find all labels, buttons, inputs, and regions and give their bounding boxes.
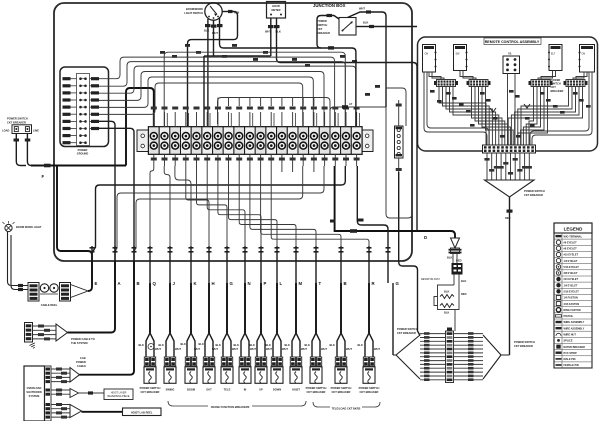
- wire remote D: [511, 87, 579, 146]
- remote switch unit 1: [423, 45, 436, 73]
- wire connector row 2 to terminal strip: [99, 62, 345, 127]
- wire remote drop: [514, 153, 516, 180]
- wire boom switch aux down: [203, 56, 205, 127]
- svg-text:R: R: [372, 281, 376, 286]
- wires above terminal strip: [99, 44, 420, 336]
- node A exit: [113, 247, 118, 249]
- remote control assembly title box: [484, 38, 541, 45]
- wire stub down: [281, 166, 283, 172]
- svg-text:W/O TERMINAL: W/O TERMINAL: [564, 235, 583, 238]
- interlock resistor assembly: [421, 238, 467, 331]
- breaker unit 1: [149, 283, 151, 333]
- wire comb drop: [228, 98, 230, 107]
- bowtie row 6: [420, 352, 446, 354]
- wire remote B: [479, 87, 508, 146]
- svg-text:WHT: WHT: [155, 347, 161, 351]
- wire J5 bottom: [398, 158, 400, 172]
- svg-text:BLK: BLK: [234, 343, 239, 347]
- bowtie row 9: [420, 363, 446, 365]
- wire to reversing piece: [79, 392, 105, 394]
- wire stub terminal 6 top: [206, 112, 208, 127]
- svg-text:CKT BREAKER: CKT BREAKER: [332, 390, 351, 394]
- breaker unit 4: [208, 283, 210, 333]
- power switch ckt breaker CB1 (left): [2, 88, 154, 261]
- boom/work light switch S1: [184, 3, 317, 127]
- svg-text:WHT: WHT: [194, 347, 200, 351]
- junction merge left: [490, 108, 496, 112]
- wire remote A: [443, 87, 490, 146]
- wire remote B: [486, 87, 514, 146]
- power cable pin header: [25, 323, 33, 343]
- wire stub terminal 1 top: [153, 112, 155, 127]
- svg-text:1/4 EYELET: 1/4 EYELET: [564, 284, 578, 287]
- terminal strip body: [149, 127, 363, 154]
- wire staircase 2: [197, 166, 228, 246]
- legend row 21: [554, 361, 592, 363]
- S1 body circle: [205, 3, 222, 20]
- connector J5: [395, 126, 404, 158]
- remote funnel: [485, 180, 535, 197]
- svg-text:CABLE: CABLE: [77, 364, 86, 368]
- node H exit: [207, 247, 212, 249]
- svg-text:D: D: [424, 235, 427, 240]
- remote bottom connector strip: [483, 145, 536, 153]
- svg-text:3/16 FASTON: 3/16 FASTON: [564, 303, 580, 306]
- wire stub terminal 2 bottom: [164, 154, 166, 166]
- unit 1 indicator: [148, 344, 154, 350]
- svg-text:BLK: BLK: [330, 343, 335, 347]
- wire stub terminal 15 bottom: [302, 154, 304, 166]
- bowtie row 8: [420, 360, 446, 362]
- power cable funnel: [56, 324, 68, 341]
- svg-text:WHT: WHT: [232, 347, 238, 351]
- terminal 2: [159, 127, 170, 154]
- svg-text:BLK: BLK: [250, 343, 255, 347]
- svg-text:SW: SW: [456, 53, 461, 56]
- svg-text:WHT: WHT: [374, 347, 380, 351]
- svg-text:BLK: BLK: [181, 342, 186, 346]
- wire comb drop: [238, 98, 240, 107]
- wire comb bus: [218, 98, 331, 127]
- wire lamp down: [8, 232, 29, 290]
- wire CB1 line down: [27, 134, 36, 166]
- svg-text:BLK: BLK: [276, 30, 281, 34]
- wire node G to bowtie: [392, 283, 394, 355]
- wire labels mesh: [160, 51, 165, 54]
- power switch ckt breaker CB2 (junction box): [317, 7, 417, 108]
- svg-text:IN: IN: [244, 388, 247, 392]
- wire node A to power cable funnel: [68, 261, 116, 333]
- wire interlock: [453, 254, 457, 264]
- svg-text:POWER: POWER: [78, 148, 88, 152]
- svg-text:B: B: [344, 281, 347, 286]
- legend row 20: [554, 355, 592, 357]
- resistor R2: [440, 304, 454, 308]
- interlock relay block: [452, 263, 463, 275]
- terminal 15: [298, 127, 309, 154]
- svg-text:BLK: BLK: [363, 21, 368, 25]
- ground symbol: [29, 343, 36, 349]
- wire stub terminal 7 bottom: [217, 154, 219, 166]
- svg-text:A: A: [118, 281, 121, 286]
- remote control internals: [423, 45, 595, 356]
- svg-text:WIRE NUT: WIRE NUT: [564, 334, 577, 337]
- svg-text:OVERLOAD: OVERLOAD: [27, 386, 42, 390]
- cable reel right connector: [60, 283, 71, 302]
- breaker unit 6: [244, 283, 246, 333]
- svg-text:H: H: [212, 281, 215, 286]
- svg-text:LOAD: LOAD: [2, 129, 9, 133]
- wire remote drop: [519, 153, 521, 180]
- svg-text:OUT: OUT: [206, 388, 212, 392]
- wire remote drop: [491, 153, 493, 180]
- svg-text:WHT: WHT: [175, 347, 181, 351]
- wire stub terminal 19 bottom: [345, 154, 347, 166]
- pin row 3: [71, 92, 77, 94]
- wire stub terminal 18 bottom: [334, 154, 336, 166]
- cable reel left connector: [28, 283, 39, 302]
- svg-text:SYSTEM: SYSTEM: [29, 394, 40, 398]
- wire connector row 8 to node B: [99, 128, 134, 261]
- terminal 10: [245, 127, 256, 154]
- svg-text:POWER SWITCH: POWER SWITCH: [514, 340, 535, 344]
- bowtie power switch breaker assembly: [393, 283, 535, 383]
- M1 body: [267, 2, 286, 19]
- wire S1 terminal 3 down then right: [220, 18, 318, 48]
- wire stub terminal 20 bottom: [356, 154, 358, 166]
- svg-text:RB: RB: [508, 53, 512, 56]
- svg-text:K: K: [194, 281, 198, 286]
- wire remote A: [453, 87, 499, 146]
- svg-text:BLK: BLK: [444, 290, 449, 294]
- svg-text:WHT: WHT: [359, 7, 365, 11]
- svg-text:REVERSING PIECE: REVERSING PIECE: [108, 395, 130, 398]
- svg-text:POWER SWITCH: POWER SWITCH: [331, 386, 352, 390]
- wire remote A: [446, 87, 492, 146]
- node E exit: [90, 247, 95, 249]
- wire run up to terminal strip: [126, 88, 154, 166]
- svg-text:CKT BREAKER: CKT BREAKER: [7, 120, 26, 124]
- svg-text:RESISTOR ASSY: RESISTOR ASSY: [421, 278, 440, 281]
- svg-text:RING FASTON: RING FASTON: [564, 309, 581, 312]
- wire remote C: [526, 87, 537, 146]
- svg-text:WHT: WHT: [265, 30, 271, 34]
- wire stub terminal 13 bottom: [281, 154, 283, 166]
- legend row 16: [554, 330, 592, 332]
- svg-text:JUNCTION BOX: JUNCTION BOX: [313, 3, 346, 8]
- wire run down to node E: [57, 166, 92, 262]
- breaker unit 2: [169, 283, 171, 333]
- svg-text:BLK: BLK: [444, 311, 449, 315]
- interlock connector: [451, 248, 460, 254]
- wire stub terminal 16 top: [313, 112, 315, 127]
- wire staircase 10: [175, 166, 191, 246]
- bowtie left funnel: [393, 335, 420, 379]
- junction merge right: [524, 104, 530, 108]
- wire stub terminal 4 bottom: [185, 154, 187, 166]
- remote control assembly enclosure: [418, 37, 598, 151]
- wires below terminal strip: [92, 107, 455, 253]
- wire col2 to col19 over strip: [164, 52, 345, 127]
- wire remote D: [515, 87, 576, 146]
- svg-text:METER: METER: [271, 8, 280, 12]
- svg-text:#10 EYELET: #10 EYELET: [564, 254, 579, 257]
- wire stub terminal 12 top: [270, 112, 272, 127]
- svg-text:WHT: WHT: [212, 347, 218, 351]
- CB1 line terminal: [25, 127, 29, 132]
- wire stub terminal 14 top: [292, 112, 294, 127]
- wires overload group3: [51, 405, 70, 418]
- breaker unit 7: [260, 283, 262, 333]
- breaker unit 11: [340, 283, 342, 333]
- svg-text:BLK: BLK: [447, 256, 452, 260]
- wire remote drop: [486, 153, 488, 180]
- hoist layer reversing piece box: [104, 389, 133, 400]
- svg-text:5/16 EYELET: 5/16 EYELET: [564, 291, 580, 294]
- svg-text:WIRE ASSEMBLY: WIRE ASSEMBLY: [564, 327, 585, 330]
- svg-text:L: L: [280, 281, 283, 286]
- breaker unit 3: [190, 283, 192, 333]
- wire stub terminal 8 top: [228, 112, 230, 127]
- legend row 15: [554, 324, 592, 326]
- svg-text:M: M: [299, 281, 303, 286]
- svg-text:CKT: CKT: [551, 85, 557, 89]
- bowtie center connector: [446, 331, 454, 383]
- svg-text:TELE/LOAD CKT BKRS: TELE/LOAD CKT BKRS: [332, 407, 361, 411]
- wire stub terminal 11 bottom: [260, 154, 262, 166]
- wire bus to node E: [92, 166, 345, 253]
- wire stub terminal 16 bottom: [313, 154, 315, 166]
- terminal strip right mounting ear: [362, 130, 374, 152]
- cable reel funnel to node E: [71, 285, 89, 298]
- svg-text:BREAKER: BREAKER: [317, 31, 330, 35]
- wire comb drop: [270, 98, 272, 107]
- remote relay block K1: [503, 56, 520, 74]
- hoist lab reel box: [123, 408, 162, 416]
- legend row 2: [554, 244, 592, 246]
- wire J5 top: [398, 100, 400, 126]
- wire remote outer right loop: [532, 72, 592, 145]
- legend row 18: [554, 343, 592, 345]
- svg-text:LINE: LINE: [33, 129, 39, 133]
- wire stub terminal 9 bottom: [238, 154, 240, 166]
- pin row 9: [71, 135, 77, 137]
- wire stub terminal 3 bottom: [174, 154, 176, 166]
- wire remote B: [482, 87, 510, 146]
- wire stub terminal 20 top: [356, 112, 358, 127]
- svg-text:HOIST LAB REEL: HOIST LAB REEL: [131, 410, 153, 414]
- wire CB2 mid right: [356, 26, 369, 28]
- wire staircase 7: [250, 166, 316, 246]
- wire comb drop: [313, 98, 315, 107]
- pin row 2: [71, 85, 77, 87]
- extra wire stubs top: [166, 113, 168, 127]
- bowtie row 5: [420, 348, 446, 350]
- svg-text:BLK: BLK: [285, 343, 290, 347]
- wire remote unit 3 to strip: [541, 71, 556, 80]
- wire remote drop: [524, 153, 526, 180]
- wire staircase 6: [239, 166, 296, 246]
- breaker unit 8: [276, 283, 278, 333]
- wire bus to node A: [115, 166, 324, 253]
- node R exit: [367, 247, 372, 249]
- node G exit: [225, 247, 230, 249]
- terminal 7: [213, 127, 224, 154]
- wire node B to cab power funnel: [80, 261, 135, 375]
- node B exit: [132, 247, 137, 249]
- wire connector row 1 to terminal strip: [99, 57, 335, 127]
- legend row 1: [554, 238, 592, 240]
- svg-text:BOOM/WORK: BOOM/WORK: [186, 7, 203, 11]
- wire CB2 to far right down: [374, 26, 417, 28]
- wire remote C: [518, 87, 548, 146]
- svg-text:BOOM WORK LIGHT: BOOM WORK LIGHT: [16, 225, 42, 229]
- wires overload group2: [51, 390, 70, 394]
- svg-text:CABLE REEL: CABLE REEL: [41, 303, 58, 307]
- legend row 14: [554, 318, 592, 320]
- wire staircase 8: [261, 166, 341, 246]
- svg-text:SWING: SWING: [166, 388, 175, 392]
- resistor loop: [438, 285, 460, 310]
- svg-text:ELT: ELT: [551, 53, 556, 56]
- terminal 8: [223, 127, 234, 154]
- terminal 5: [191, 127, 202, 154]
- node K exit: [189, 247, 194, 249]
- legend row 19: [554, 349, 592, 351]
- svg-text:G: G: [396, 281, 400, 286]
- node N exit: [243, 247, 248, 249]
- legend row 7: [554, 275, 592, 277]
- svg-text:SWITCH: SWITCH: [317, 23, 327, 27]
- svg-text:POWER: POWER: [76, 360, 86, 364]
- wire CB2 left down: [332, 16, 339, 20]
- svg-text:UP: UP: [259, 388, 263, 392]
- bowtie row 11: [420, 371, 446, 373]
- wire remote funnel down: [509, 197, 511, 355]
- wire remote drop: [495, 153, 497, 180]
- legend row 13: [554, 312, 592, 314]
- wires power cable rows: [33, 326, 57, 339]
- wire to node G right: [357, 166, 388, 246]
- svg-text:POWER SWITCH: POWER SWITCH: [359, 386, 380, 390]
- wires overload group1: [51, 369, 70, 382]
- wire stub terminal 7 top: [217, 112, 219, 127]
- terminal 17: [319, 127, 330, 154]
- svg-text:SPLICE: SPLICE: [564, 340, 573, 343]
- svg-text:BREAKER: BREAKER: [551, 89, 564, 93]
- wire remote D: [518, 87, 572, 146]
- wire comb drop: [249, 98, 251, 107]
- svg-text:CKT BREAKER: CKT BREAKER: [524, 193, 543, 197]
- svg-text:P: P: [264, 281, 267, 286]
- wire remote B: [475, 87, 505, 146]
- wire remote drop: [510, 153, 512, 180]
- bowtie right funnel: [483, 335, 510, 379]
- svg-text:E: E: [95, 281, 98, 286]
- wire stub terminal 11 top: [260, 112, 262, 127]
- wire to node Q: [150, 166, 154, 246]
- node G exit: [386, 247, 391, 249]
- wire remote A: [450, 87, 496, 146]
- legend row 10: [554, 293, 592, 295]
- wire S1 terminal 2 down: [214, 20, 271, 57]
- svg-text:J: J: [173, 281, 176, 286]
- svg-text:CKT BREAKER: CKT BREAKER: [397, 331, 416, 335]
- wire right side down: [386, 107, 412, 218]
- bowtie row 4: [420, 344, 446, 346]
- wire stub terminal 17 top: [324, 112, 326, 127]
- svg-text:#10 EYELET: #10 EYELET: [564, 278, 579, 281]
- breaker unit 5: [226, 283, 228, 333]
- wire to node J: [164, 166, 170, 246]
- svg-text:POWER: POWER: [317, 19, 327, 23]
- legend: [554, 223, 592, 368]
- wire S1 terminal 1 down: [207, 19, 209, 127]
- svg-text:#6 EYELET: #6 EYELET: [564, 241, 578, 244]
- svg-text:1/4 FASTON: 1/4 FASTON: [564, 297, 578, 300]
- svg-text:BLK: BLK: [199, 342, 204, 346]
- connector pin header: [77, 74, 90, 146]
- bowtie row 7: [420, 356, 446, 358]
- wire remote B: [472, 87, 503, 146]
- wire stub down: [292, 166, 294, 172]
- wire bus to node B: [134, 166, 303, 253]
- CB2 body: [339, 18, 356, 36]
- wire relay down: [508, 74, 516, 146]
- wire main power run: [31, 165, 126, 167]
- breaker unit 9: [295, 283, 297, 333]
- wire comb drop: [217, 98, 219, 107]
- bottom breaker units: [139, 283, 381, 411]
- svg-text:ON: ON: [582, 53, 586, 56]
- svg-text:HOIST: HOIST: [292, 388, 300, 392]
- node T exit: [314, 247, 319, 249]
- svg-text:F: F: [42, 174, 45, 179]
- svg-text:BLK: BLK: [266, 343, 271, 347]
- node J exit: [168, 247, 173, 249]
- legend row 12: [554, 306, 592, 308]
- svg-text:CKT: CKT: [317, 27, 323, 31]
- remote connector strip 4: [566, 80, 585, 87]
- svg-text:POWER SWITCH: POWER SWITCH: [140, 386, 161, 390]
- wire staircase 3: [207, 166, 245, 246]
- wire remote D: [521, 87, 569, 146]
- legend row 9: [554, 287, 592, 289]
- resistor R1: [440, 295, 454, 299]
- wire remote A: [439, 87, 486, 146]
- svg-text:BLK: BLK: [139, 343, 144, 347]
- terminal 6: [202, 127, 213, 154]
- svg-text:A7: A7: [349, 102, 353, 106]
- connector block outline: [60, 67, 109, 147]
- CB1 body: [12, 125, 32, 134]
- terminal 11: [255, 127, 266, 154]
- terminal 12: [266, 127, 277, 154]
- wire comb drop: [302, 98, 304, 107]
- wire stub terminal 2 top: [164, 112, 166, 127]
- pin row 7: [71, 120, 77, 122]
- terminal 14: [287, 127, 298, 154]
- wire remote D: [508, 87, 582, 146]
- terminal strip left mounting ear: [137, 130, 149, 152]
- svg-text:RED: RED: [505, 216, 511, 220]
- svg-text:BLK: BLK: [305, 343, 310, 347]
- wire remote unit 2 to strip: [460, 71, 473, 80]
- svg-text:WHT: WHT: [346, 347, 352, 351]
- wire to hoist lab reel: [82, 411, 123, 413]
- terminal 20: [351, 127, 362, 154]
- wire node D run: [335, 166, 455, 238]
